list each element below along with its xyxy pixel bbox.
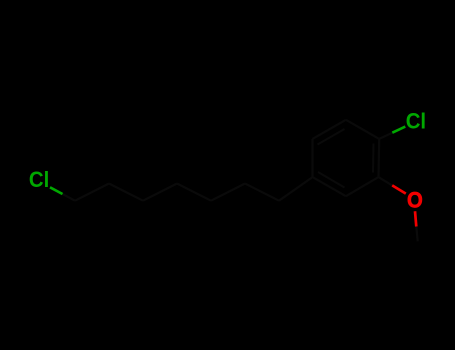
bond C7-ring: [279, 177, 313, 201]
bond C4-C5: [177, 184, 211, 201]
benzene ring edge B-A: [346, 120, 379, 139]
benzene ring edge A-F (right vertical): [377, 139, 380, 177]
bond ringF-O dark half: [379, 177, 393, 185]
bond C6-C7: [245, 184, 279, 201]
bond ringA-Cl dark half: [379, 133, 392, 139]
svg-text:O: O: [407, 187, 423, 212]
bond C5-C6: [211, 184, 245, 201]
benzene ring edge D-C (left vertical): [311, 139, 313, 177]
benzene ring edge C-B: [313, 120, 346, 139]
bond Cl-C1 (dark half): [63, 194, 76, 201]
benzene ring edge E-D: [313, 177, 346, 196]
bond O-CH3 red half: [415, 211, 416, 226]
benzene inner double bond E-D: [318, 172, 345, 188]
benzene ring edge F-E: [346, 177, 379, 196]
benzene inner double bond A-F: [372, 144, 375, 173]
benzene inner double bond C-B: [318, 129, 345, 145]
bond O-CH3 dark half: [416, 227, 417, 242]
bond C3-C4: [143, 184, 177, 201]
bond Cl-C1 green half: [50, 187, 63, 194]
bond ringA-Cl green half: [392, 127, 405, 133]
bond C1-C2: [75, 184, 109, 201]
svg-text:Cl: Cl: [406, 108, 426, 133]
bond ringF-O red half: [392, 185, 406, 193]
bond C2-C3: [109, 184, 143, 201]
svg-text:Cl: Cl: [29, 167, 49, 192]
